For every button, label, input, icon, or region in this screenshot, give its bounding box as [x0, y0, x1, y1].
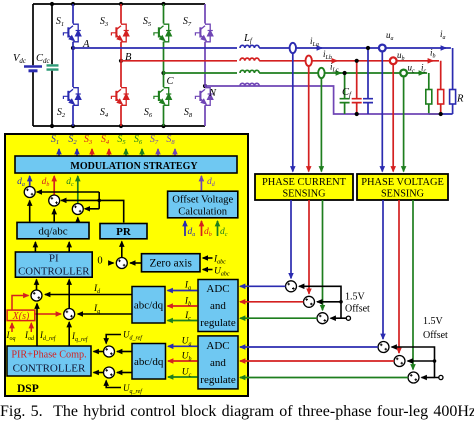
svg-text:C: C — [167, 76, 175, 87]
svg-text:Calculation: Calculation — [178, 207, 228, 218]
svg-text:PHASE VOLTAGE: PHASE VOLTAGE — [361, 177, 444, 188]
svg-text:Zero axis: Zero axis — [150, 258, 192, 270]
svg-text:PIR+Phase Comp.: PIR+Phase Comp. — [11, 350, 86, 361]
svg-text:X(s): X(s) — [12, 311, 30, 322]
svg-text:R: R — [456, 94, 464, 105]
svg-text:N: N — [208, 88, 217, 99]
svg-text:A: A — [82, 39, 90, 50]
svg-text:regulate: regulate — [200, 374, 236, 386]
svg-text:CONTROLLER: CONTROLLER — [18, 266, 90, 278]
svg-text:CONTROLLER: CONTROLLER — [13, 363, 86, 375]
svg-text:ADC: ADC — [206, 283, 229, 295]
svg-text:1.5V: 1.5V — [423, 316, 444, 327]
svg-text:B: B — [125, 52, 132, 63]
svg-text:PHASE CURRENT: PHASE CURRENT — [262, 177, 347, 188]
svg-text:abc/dq: abc/dq — [134, 356, 164, 368]
svg-text:PR: PR — [116, 226, 132, 238]
svg-text:MODULATION STRATEGY: MODULATION STRATEGY — [70, 161, 198, 172]
svg-text:SENSING: SENSING — [282, 189, 326, 200]
svg-text:DSP: DSP — [17, 383, 39, 395]
svg-text:dq/abc: dq/abc — [38, 226, 67, 238]
svg-text:and: and — [210, 300, 226, 312]
svg-text:SENSING: SENSING — [381, 189, 425, 200]
svg-text:and: and — [210, 357, 226, 369]
svg-text:PI: PI — [49, 253, 59, 265]
svg-text:regulate: regulate — [200, 317, 236, 329]
svg-text:Offset: Offset — [345, 304, 370, 315]
svg-text:Offset: Offset — [423, 330, 448, 341]
svg-text:ADC: ADC — [206, 340, 229, 352]
svg-text:1.5V: 1.5V — [345, 292, 366, 303]
svg-text:0: 0 — [97, 256, 102, 267]
svg-text:Offset Voltage: Offset Voltage — [172, 195, 233, 206]
svg-text:abc/dq: abc/dq — [134, 300, 164, 312]
